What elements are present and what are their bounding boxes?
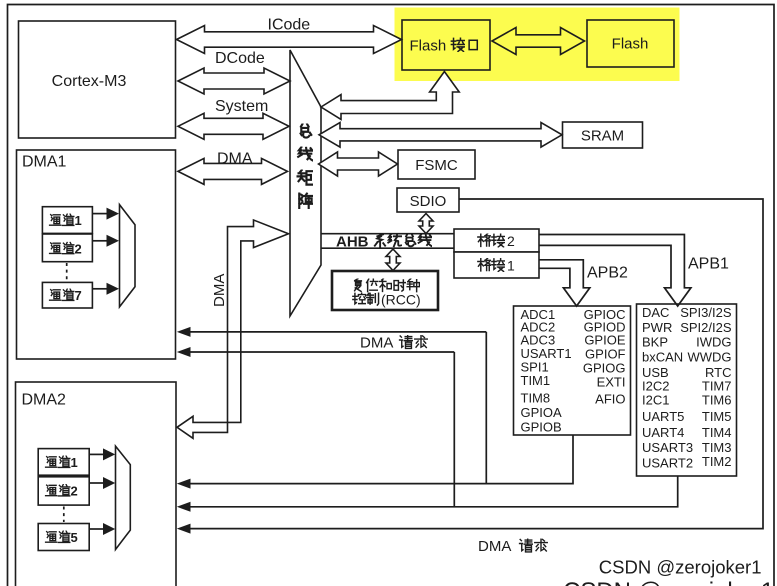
svg-text:TIM5: TIM5 <box>702 409 732 424</box>
label Flash interface <box>410 38 478 55</box>
arrow ICode (Cortex-M3 to Flash interface) <box>177 26 402 54</box>
label channel2 DMA2 <box>46 484 78 499</box>
arrow bus matrix to FSMC <box>319 152 398 176</box>
label AHB system bus <box>336 234 431 251</box>
svg-text:1: 1 <box>75 213 82 228</box>
svg-text:CSDN @zerojoker1: CSDN @zerojoker1 <box>563 578 774 586</box>
svg-text:USART2: USART2 <box>642 455 693 470</box>
svg-text:AFIO: AFIO <box>595 391 625 406</box>
arrow Flash interface to Flash <box>492 28 585 55</box>
wire DMA request line 1 to DMA1 <box>191 332 487 484</box>
label RCC line2 <box>353 292 421 308</box>
box Flash interface <box>402 20 490 70</box>
svg-text:7: 7 <box>75 288 82 303</box>
svg-text:DMA: DMA <box>478 538 511 555</box>
arrow channel2 to mux1 <box>93 240 108 242</box>
label RCC line1 <box>355 279 420 292</box>
wire SDIO to DMA2 request <box>191 199 764 529</box>
box SDIO <box>397 188 459 212</box>
label channel1 DMA2 <box>46 455 78 470</box>
svg-text:GPIOB: GPIOB <box>521 419 562 434</box>
box channel1 DMA1 <box>42 207 92 234</box>
svg-text:PWR: PWR <box>642 320 672 335</box>
bus matrix polygon <box>290 50 321 316</box>
label bridge2 <box>478 233 515 249</box>
box channel7 DMA1 <box>42 282 92 308</box>
svg-text:GPIOE: GPIOE <box>584 333 626 348</box>
svg-text:TIM4: TIM4 <box>702 425 732 440</box>
svg-text:USART3: USART3 <box>642 440 693 455</box>
box Flash <box>587 20 674 67</box>
svg-text:5: 5 <box>71 530 78 545</box>
svg-text:TIM2: TIM2 <box>702 454 732 469</box>
svg-text:Flash: Flash <box>612 36 649 53</box>
label channel7 DMA1 <box>50 288 82 303</box>
box APB2 peripherals <box>514 306 631 435</box>
svg-text:TIM8: TIM8 <box>521 391 551 406</box>
svg-text:System: System <box>215 98 268 115</box>
arrow channel7 to mux1 <box>93 288 108 290</box>
label channel5 DMA2 <box>46 530 78 545</box>
svg-text:SRAM: SRAM <box>581 128 624 145</box>
arrow System (Cortex-M3 to bus matrix) <box>178 113 289 139</box>
wire bridge1 to APB2 hollow down arrow <box>539 260 590 306</box>
svg-text:SPI2/I2S: SPI2/I2S <box>680 320 732 335</box>
box SRAM <box>563 122 643 148</box>
svg-text:UART5: UART5 <box>642 409 684 424</box>
label bus matrix (vertical) <box>298 124 313 208</box>
wire APB1 to DMA2 request <box>191 476 678 507</box>
arrow DCode (Cortex-M3 to bus matrix) <box>178 68 290 94</box>
arrow SDIO to AHB bus <box>419 214 433 234</box>
svg-text:1: 1 <box>507 258 515 274</box>
svg-text:GPIOF: GPIOF <box>585 347 626 362</box>
svg-text:TIM6: TIM6 <box>702 393 732 408</box>
dashed link channel2 to channel5 <box>63 507 65 523</box>
box bridge1 <box>454 252 539 278</box>
label channel1 DMA1 <box>50 213 82 228</box>
svg-text:(RCC): (RCC) <box>381 292 421 308</box>
label bridge1 <box>478 258 515 274</box>
svg-text:GPIOG: GPIOG <box>583 361 626 376</box>
svg-text:2: 2 <box>507 233 515 249</box>
arrow AHB bus to RCC <box>386 249 400 271</box>
box Cortex-M3 <box>19 21 176 138</box>
arrow bus matrix to Flash interface (L-shaped) <box>321 72 459 120</box>
label DMA request lower <box>478 538 547 555</box>
box DMA1 <box>17 150 176 359</box>
svg-text:GPIOA: GPIOA <box>521 405 563 420</box>
svg-text:bxCAN: bxCAN <box>642 350 683 365</box>
arrow bus matrix to SRAM <box>319 123 562 148</box>
box bridge2 <box>454 229 539 252</box>
svg-text:DMA2: DMA2 <box>22 392 67 409</box>
svg-text:2: 2 <box>71 484 78 499</box>
svg-text:APB1: APB1 <box>688 256 729 273</box>
svg-text:SDIO: SDIO <box>410 193 447 210</box>
svg-text:TIM1: TIM1 <box>521 373 551 388</box>
svg-text:APB2: APB2 <box>587 265 628 282</box>
svg-text:I2C1: I2C1 <box>642 393 669 408</box>
wire DMA request line 2 to DMA1 <box>191 352 455 507</box>
wire APB2 to DMA2 request <box>191 435 574 484</box>
svg-text:DCode: DCode <box>215 50 265 67</box>
svg-text:EXTI: EXTI <box>597 375 626 390</box>
svg-text:DMA: DMA <box>360 335 393 352</box>
svg-text:IWDG: IWDG <box>696 335 731 350</box>
svg-text:DAC: DAC <box>642 305 669 320</box>
svg-text:UART4: UART4 <box>642 425 684 440</box>
svg-text:WWDG: WWDG <box>687 350 731 365</box>
wire AHB system bus (double line) <box>321 234 454 249</box>
svg-text:I2C2: I2C2 <box>642 379 669 394</box>
arrow DMA (DMA1 to bus matrix) <box>178 158 288 184</box>
svg-text:TIM3: TIM3 <box>702 440 732 455</box>
wire bridge2 to APB1 hollow down arrow <box>539 235 691 307</box>
yellow highlight behind Flash blocks <box>395 8 680 82</box>
svg-text:ICode: ICode <box>268 17 311 34</box>
arrow channel2 to mux2 <box>89 482 103 484</box>
mux DMA2 <box>116 446 131 549</box>
arrow DMA2 to bus matrix (Z-shaped channel) <box>177 220 289 438</box>
svg-text:DMA: DMA <box>217 151 253 168</box>
svg-text:TIM7: TIM7 <box>702 379 732 394</box>
svg-text:DMA1: DMA1 <box>22 154 67 171</box>
svg-text:SPI3/I2S: SPI3/I2S <box>680 305 732 320</box>
label DMA request upper <box>360 335 427 352</box>
box channel1 DMA2 <box>38 449 89 476</box>
svg-text:CSDN @zerojoker1: CSDN @zerojoker1 <box>599 557 762 578</box>
svg-text:1: 1 <box>71 455 78 470</box>
arrow channel5 to mux2 <box>89 528 103 530</box>
box DMA2 <box>16 382 177 586</box>
box FSMC <box>398 150 475 179</box>
svg-text:Flash: Flash <box>410 38 447 55</box>
svg-text:2: 2 <box>75 241 82 256</box>
box channel2 DMA1 <box>42 234 92 262</box>
svg-text:FSMC: FSMC <box>415 157 458 174</box>
svg-text:BKP: BKP <box>642 335 668 350</box>
label channel2 DMA1 <box>50 241 82 256</box>
box channel2 DMA2 <box>38 477 89 505</box>
svg-text:Cortex-M3: Cortex-M3 <box>52 73 127 90</box>
arrow channel1 to mux2 <box>89 453 103 455</box>
svg-text:DMA: DMA <box>211 274 228 307</box>
dashed link channel2 to channel7 <box>66 263 68 281</box>
box channel5 DMA2 <box>38 524 89 551</box>
box APB1 peripherals <box>637 304 737 476</box>
box RCC (thick border) <box>332 271 438 310</box>
arrow channel1 to mux1 <box>93 213 108 215</box>
mux DMA1 <box>120 205 136 307</box>
svg-text:AHB: AHB <box>336 234 369 251</box>
